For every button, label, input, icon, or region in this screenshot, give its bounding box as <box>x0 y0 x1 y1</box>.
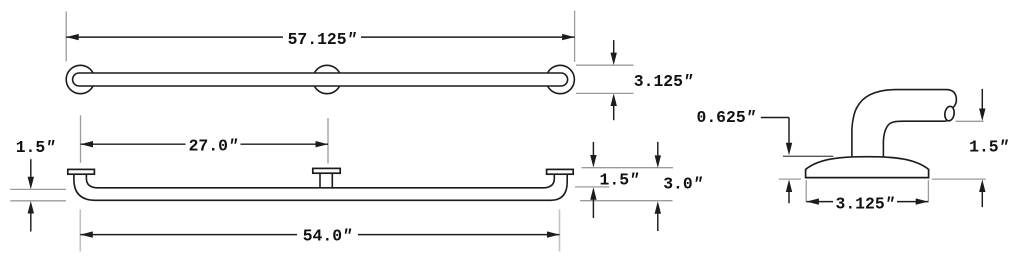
side view: middle flange plate <box>313 168 340 173</box>
dim 27.0: dimension line left segment <box>81 143 186 145</box>
top view: middle flange circle <box>313 65 341 93</box>
top view: grab bar tube (rounded ends) <box>73 73 568 86</box>
dim right 1.5: down arrow <box>590 155 596 168</box>
svg-text:3.125″: 3.125″ <box>835 195 894 214</box>
dim 0.625: leader vertical <box>788 118 790 144</box>
dim 54.0: dimension line right segment <box>358 234 560 236</box>
dim right 3.0: down arrow <box>655 155 661 168</box>
dim 54.0: dimension line left segment <box>80 234 297 236</box>
dim end 3.125: dimension line right segment <box>897 201 928 203</box>
dim 27.0: right extension line <box>327 118 329 164</box>
dim 27.0: left arrowhead <box>81 141 94 147</box>
dim end 1.5: upper extension line <box>956 120 984 122</box>
dim 57.125: dimension line right segment <box>361 36 575 38</box>
svg-text:1.5″: 1.5″ <box>16 138 56 157</box>
dim 3.125 top: up arrow <box>611 94 617 107</box>
svg-text:1.5″: 1.5″ <box>969 138 1009 157</box>
dim 57.125: left arrowhead <box>66 34 79 40</box>
dim 0.625: upper extension line <box>783 155 833 157</box>
svg-text:27.0″: 27.0″ <box>189 136 238 155</box>
dim 54.0: left extension line <box>79 209 81 251</box>
side view: bar bottom line <box>95 199 551 201</box>
dim 57.125: left extension line <box>65 12 67 62</box>
dim 1.5 left: lower extension line <box>10 200 66 202</box>
dim 54.0: right arrowhead <box>547 231 560 237</box>
dim right 1.5: up arrow <box>590 187 596 200</box>
dim end 3.125: left arrowhead <box>806 198 819 204</box>
dim 1.5 left: down arrow <box>28 177 34 190</box>
end view: base bottom extension line right <box>932 178 986 180</box>
dim end 1.5: down arrow <box>979 109 985 122</box>
dim 3.125 top: upper extension line <box>576 64 634 66</box>
dim 3.125 top: down arrow <box>611 53 617 66</box>
dim 0.625: leader horizontal <box>761 117 789 119</box>
dim 54.0: left arrowhead <box>80 231 93 237</box>
dim 0.625: down arrowhead <box>786 143 792 156</box>
dim 1.5 left: upper extension line <box>10 188 66 190</box>
dim 3.125 top: lower extension line <box>576 92 634 94</box>
end view: tube inner outline <box>883 121 946 157</box>
dim end 3.125: right extension line <box>927 180 929 202</box>
end view: tube outer outline <box>852 90 957 158</box>
dim end 3.125: right arrowhead <box>916 198 929 204</box>
svg-text:57.125″: 57.125″ <box>288 30 357 49</box>
dim 0.625: up arrow <box>786 180 792 193</box>
side view: left elbow inner curve <box>86 174 98 188</box>
dim 57.125: right arrowhead <box>562 34 575 40</box>
side view: right elbow outer curve <box>551 174 568 200</box>
svg-text:0.625″: 0.625″ <box>696 108 755 127</box>
dim end 3.125: left extension line <box>805 180 807 202</box>
dim 57.125: dimension line left segment <box>66 36 283 38</box>
side view: right elbow inner curve <box>543 174 554 188</box>
dim right 3.0: lower extension line (bar bottom) <box>580 200 673 202</box>
svg-text:54.0″: 54.0″ <box>303 226 352 245</box>
side view: left flange plate <box>68 169 95 174</box>
side view: bar top line <box>98 187 544 189</box>
end view: base bottom extension line left <box>779 178 801 180</box>
top view: right flange circle <box>546 65 574 93</box>
svg-text:3.0″: 3.0″ <box>663 174 703 193</box>
side view: left elbow outer curve <box>74 174 96 200</box>
dim 27.0: dimension line right segment <box>241 143 329 145</box>
dim 1.5 left: up arrow <box>28 201 34 214</box>
svg-text:1.5″: 1.5″ <box>600 171 640 190</box>
top view: left flange circle <box>66 65 94 93</box>
dim right 3.0: up arrow <box>655 201 661 214</box>
dim 54.0: right extension line <box>559 209 561 251</box>
dim end 3.125: dimension line left segment <box>806 201 833 203</box>
side view: right flange plate <box>547 169 574 174</box>
dim 27.0: right arrowhead <box>316 141 329 147</box>
side view: middle flange stem right line <box>331 173 333 188</box>
dim end 1.5: up arrow <box>979 180 985 193</box>
side view: middle flange stem left line <box>319 173 321 188</box>
dim 27.0: left extension line <box>80 115 82 162</box>
end view: tube end ellipse <box>944 106 955 122</box>
dim right 1.5: lower extension line (bar top) <box>575 186 610 188</box>
dim right: top extension line (wall plane) <box>582 167 674 169</box>
end view: flange base dome <box>806 157 929 178</box>
svg-text:3.125″: 3.125″ <box>634 72 693 91</box>
dim 57.125: right extension line <box>574 11 576 62</box>
